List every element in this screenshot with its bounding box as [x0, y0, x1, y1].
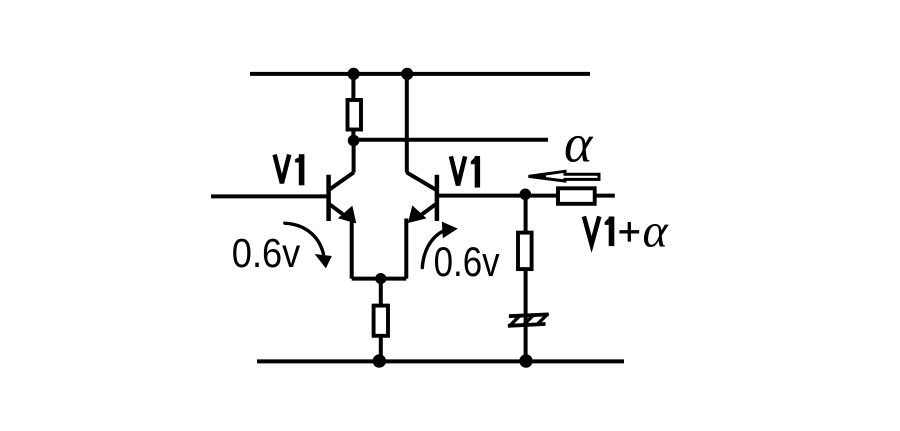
junction dot output node — [520, 189, 532, 201]
curved arrow right arrowhead — [442, 222, 458, 239]
transistor Q1 emitter arrowhead — [338, 206, 356, 224]
wire right base lead — [438, 194, 557, 198]
transistor Q1 base bar — [326, 175, 331, 221]
wire left emitter vertical — [350, 220, 354, 279]
wire resistor R1 top lead — [351, 74, 355, 101]
wire right collector vertical — [405, 74, 409, 173]
wire node A horizontal line — [354, 138, 548, 142]
wire R4 branch vertical top — [524, 195, 528, 233]
junction dot node A — [348, 135, 360, 147]
wire emitter tie bar — [352, 277, 407, 281]
wire left emitter diagonal Q1 — [330, 204, 351, 219]
wire right collector diagonal Q2 — [407, 172, 436, 189]
curved arrow right (0.6v drop indicator) — [422, 231, 444, 268]
wire left collector diagonal Q1 — [330, 172, 354, 189]
label V1+ of V1+alpha (drawn glyphs) — [584, 216, 639, 246]
junction dot emitter tie — [375, 273, 386, 284]
junction dot bottom rail right — [519, 354, 532, 367]
junction dot top rail left — [348, 68, 360, 80]
wire resistor R3 right lead — [595, 194, 615, 198]
wire R4 to ground symbol — [524, 270, 528, 362]
curved arrow left arrowhead — [315, 254, 332, 268]
wire resistor R1 bottom lead — [351, 130, 355, 141]
wire R2 tail resistor top lead — [379, 279, 383, 306]
transistor Q2 emitter arrowhead — [408, 205, 427, 223]
resistor R4 body — [518, 233, 532, 270]
resistor R3 body — [558, 188, 595, 204]
ground/hatch symbol bottom bar — [508, 324, 546, 326]
hollow arrow alpha current direction — [529, 171, 600, 181]
svg-text:α: α — [643, 204, 669, 257]
ground/hatch diagonal 2 — [524, 316, 534, 325]
hollow arrow solid tip — [527, 174, 546, 179]
wire top supply rail — [250, 72, 590, 76]
wire left collector vertical — [352, 140, 356, 173]
wire R2 tail resistor bottom lead — [379, 337, 383, 362]
label V1 right (drawn glyphs) — [451, 156, 480, 188]
wire bottom ground rail — [257, 359, 624, 363]
wire left base lead input — [211, 194, 328, 198]
junction dot bottom rail left — [373, 354, 386, 367]
svg-text:0.6v: 0.6v — [232, 230, 301, 276]
junction dot top rail right — [401, 68, 413, 80]
svg-text:α: α — [564, 114, 594, 174]
curved arrow left (0.6v drop indicator) — [285, 223, 324, 254]
label V1 left (drawn glyphs) — [275, 154, 305, 185]
wire right emitter diagonal Q2 — [415, 204, 436, 219]
ground/hatch symbol top bar — [509, 314, 549, 316]
resistor R2 body — [374, 306, 388, 336]
transistor Q2 base bar — [435, 175, 440, 221]
wire right emitter vertical — [404, 219, 408, 279]
resistor R1 body — [348, 100, 362, 130]
ground/hatch diagonal 1 — [510, 316, 520, 325]
svg-text:0.6v: 0.6v — [434, 238, 500, 285]
ground/hatch diagonal 3 — [537, 315, 547, 324]
